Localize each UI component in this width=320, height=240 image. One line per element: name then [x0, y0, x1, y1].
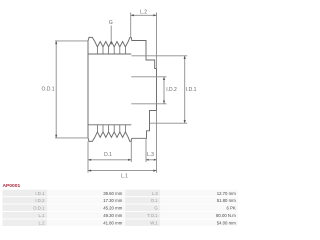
svg-text:17.30 mm: 17.30 mm — [103, 198, 123, 203]
svg-text:O.1: O.1 — [151, 198, 159, 203]
bore line bottom — [131, 103, 166, 105]
table row 1 — [3, 190, 239, 197]
rim inner line bottom — [88, 124, 131, 126]
groove valley ticks bottom — [97, 125, 125, 132]
svg-text:L.2: L.2 — [140, 10, 147, 16]
svg-text:L.1: L.1 — [121, 173, 128, 179]
svg-text:39.60 mm: 39.60 mm — [103, 191, 123, 196]
svg-text:L.1: L.1 — [39, 213, 46, 218]
svg-text:O.D.1: O.D.1 — [42, 86, 55, 92]
dimension L.3 — [146, 111, 157, 173]
table row 5 — [3, 219, 239, 226]
svg-text:I.D.1: I.D.1 — [35, 191, 45, 196]
svg-text:O.D.1: O.D.1 — [33, 206, 45, 211]
svg-text:6 PK: 6 PK — [226, 206, 235, 211]
dimension I.D.1 — [132, 56, 197, 123]
svg-text:D.1: D.1 — [104, 152, 112, 158]
dimension L.2 — [131, 10, 157, 69]
svg-text:41.80 mm: 41.80 mm — [103, 220, 123, 225]
rim inner line top — [88, 53, 131, 55]
table row 4 — [3, 212, 239, 219]
svg-text:I.D.2: I.D.2 — [35, 198, 45, 203]
pulley outline — [88, 37, 157, 141]
svg-text:80.00 N.m: 80.00 N.m — [216, 213, 236, 218]
bore line top — [131, 76, 166, 78]
dimension I.D.2 — [163, 77, 177, 104]
svg-text:L.3: L.3 — [152, 191, 159, 196]
svg-text:T.O.1: T.O.1 — [147, 213, 158, 218]
svg-text:I.D.2: I.D.2 — [166, 87, 177, 93]
dimension D.1 — [88, 139, 131, 173]
svg-text:G: G — [109, 20, 113, 26]
svg-text:45.20 mm: 45.20 mm — [103, 206, 123, 211]
svg-text:49.30 mm: 49.30 mm — [103, 213, 123, 218]
groove valley ticks top — [97, 47, 125, 54]
svg-text:I.D.1: I.D.1 — [186, 87, 197, 93]
groove label G with leader — [109, 20, 113, 45]
dimension L.1 — [88, 170, 157, 180]
svg-text:54.00 mm: 54.00 mm — [217, 220, 237, 225]
table row 3 — [3, 205, 239, 212]
svg-text:12.70 mm: 12.70 mm — [217, 191, 237, 196]
dimension O.D.1 — [42, 41, 88, 138]
svg-text:L.2: L.2 — [39, 220, 46, 225]
table row 2 — [3, 197, 239, 204]
svg-text:AP0001: AP0001 — [3, 183, 21, 189]
svg-text:W.1: W.1 — [150, 220, 158, 225]
svg-text:51.80 mm: 51.80 mm — [217, 198, 237, 203]
svg-text:L.3: L.3 — [147, 152, 154, 158]
